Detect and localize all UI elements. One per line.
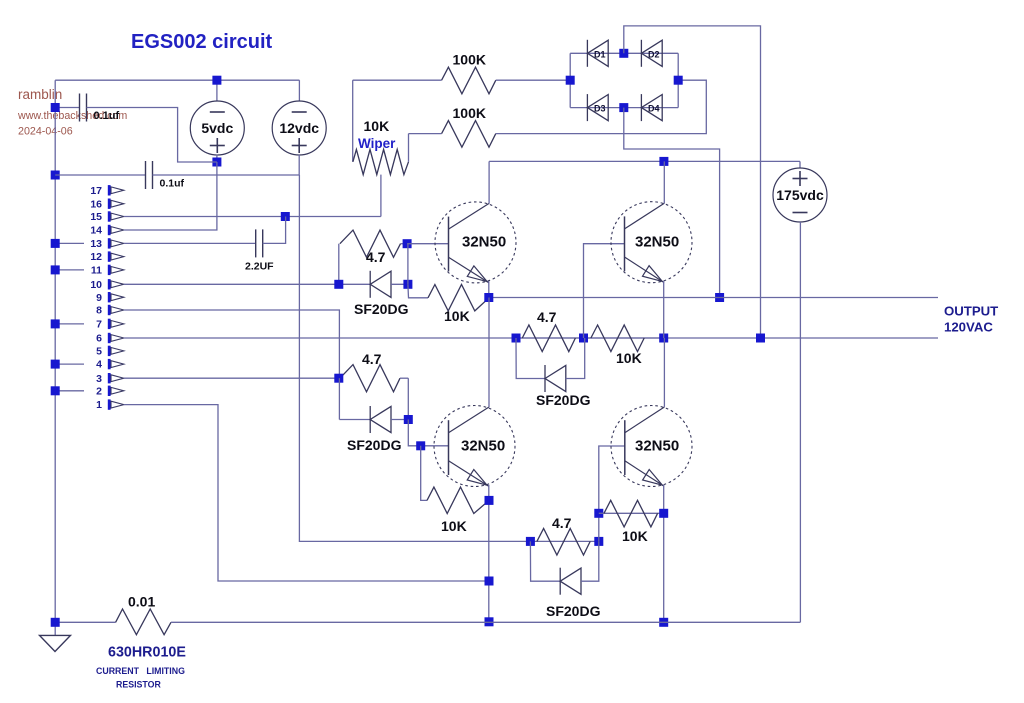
wire D8 right lead xyxy=(581,541,599,581)
svg-text:16: 16 xyxy=(90,198,102,210)
wire pin 13 to 2.2UF xyxy=(124,242,256,244)
svg-text:3: 3 xyxy=(96,373,102,385)
resistor R2 100K xyxy=(442,121,496,148)
pin 16 xyxy=(90,198,123,210)
wire C2 right lead xyxy=(153,174,300,176)
svg-text:13: 13 xyxy=(90,238,102,250)
diode D3 xyxy=(587,94,608,121)
pin 14 xyxy=(90,225,123,237)
wire Q4 base riser xyxy=(599,446,625,541)
svg-text:10K: 10K xyxy=(364,118,390,134)
wire 12vdc top lead xyxy=(298,80,300,101)
wire R6 leads xyxy=(584,337,664,339)
wire 175vdc bottom lead xyxy=(799,222,801,622)
wire output line 1 120VAC xyxy=(489,297,938,299)
node bridge tap on output line 2 xyxy=(756,334,765,343)
node ground stub pin 7 xyxy=(51,319,60,328)
node bridge bottom center xyxy=(619,103,628,112)
wire collector rail 175V xyxy=(489,160,800,162)
svg-text:100K: 100K xyxy=(453,52,486,68)
node R5 left xyxy=(512,334,521,343)
wire left ground rail xyxy=(54,80,56,635)
pin 4 xyxy=(96,359,124,371)
svg-text:630HR010E: 630HR010E xyxy=(108,645,186,661)
wire 5vdc bottom lead xyxy=(216,155,218,162)
wire bottom rail right to 175vdc xyxy=(171,621,800,623)
node ground stub pin 13 xyxy=(51,239,60,248)
node bridge right xyxy=(674,76,683,85)
diode D7 SF20DG xyxy=(370,406,391,433)
wire Q2 emitter drop xyxy=(663,281,665,338)
wire R7 to D7 drop xyxy=(407,378,409,419)
svg-text:10K: 10K xyxy=(444,308,470,324)
wire ground stub pin 13 xyxy=(55,242,84,244)
diode D6 SF20DG xyxy=(545,365,566,392)
svg-text:10: 10 xyxy=(90,279,102,291)
resistor R11 0.01 shunt xyxy=(116,609,171,635)
power source V3 175vdc xyxy=(773,168,827,222)
capacitor C3 2.2UF xyxy=(256,229,263,257)
wire R5 leads xyxy=(516,337,584,339)
svg-text:2024-04-06: 2024-04-06 xyxy=(18,126,73,138)
wire 175vdc top lead xyxy=(799,161,801,168)
node pin15/2.2UF junction xyxy=(281,212,290,221)
wire 12vdc bottom lead xyxy=(298,155,300,175)
transistor Q1 32N50 xyxy=(435,202,516,283)
svg-text:32N50: 32N50 xyxy=(461,438,505,455)
wire Q3 collector riser xyxy=(488,298,490,408)
ground symbol xyxy=(40,635,71,651)
wire R10 leads xyxy=(599,512,664,514)
svg-text:SF20DG: SF20DG xyxy=(546,603,601,619)
node R10 right / Q4 emitter xyxy=(659,509,668,518)
svg-text:5: 5 xyxy=(96,346,102,358)
svg-text:D1: D1 xyxy=(594,49,606,59)
resistor R9 4.7 xyxy=(537,528,590,555)
node R10 left junction xyxy=(594,509,603,518)
wire Q3 base lead xyxy=(408,420,448,446)
svg-text:120VAC: 120VAC xyxy=(944,320,993,335)
pin 1 xyxy=(96,399,124,411)
svg-text:5vdc: 5vdc xyxy=(201,120,233,136)
svg-text:32N50: 32N50 xyxy=(635,438,679,455)
resistor R3 4.7 xyxy=(340,230,401,257)
node ground rail junction xyxy=(51,618,60,627)
resistor R1 100K xyxy=(442,67,496,94)
svg-text:0.1uf: 0.1uf xyxy=(94,110,120,122)
node C2 rail junction xyxy=(51,171,60,180)
wire D5 to Q1 base riser xyxy=(407,244,409,285)
pin 9 xyxy=(96,292,124,304)
capacitor C1 0.1uf xyxy=(80,94,87,122)
potentiometer RV1 10K xyxy=(353,149,409,174)
wire R7 right lead xyxy=(400,377,408,379)
wire Q2 base riser xyxy=(584,244,625,338)
resistor R4 10K xyxy=(428,285,489,311)
wire ground stub pin 11 xyxy=(55,269,84,271)
wire ground stub pin 7 xyxy=(55,323,84,325)
wire R1 right lead xyxy=(496,79,570,81)
node C1 rail junction xyxy=(51,103,60,112)
capacitor C2 0.1uf xyxy=(146,161,153,189)
node collector rail junction Q2 xyxy=(659,157,668,166)
node gate net B left xyxy=(334,374,343,383)
svg-text:D3: D3 xyxy=(594,104,606,114)
wire D6 left lead xyxy=(516,338,545,379)
wire pot left leg xyxy=(352,80,354,162)
node bridge left xyxy=(566,76,575,85)
wire bridge bottom to output line 1 xyxy=(624,108,720,298)
svg-text:Wiper: Wiper xyxy=(358,136,396,151)
wire Q2 collector riser xyxy=(663,161,665,203)
wire D8 left lead xyxy=(530,541,560,581)
pin 12 xyxy=(90,251,123,263)
diode D5 SF20DG xyxy=(370,271,391,298)
wire C3 right lead xyxy=(263,217,286,244)
diode D1 xyxy=(587,40,608,67)
svg-text:6: 6 xyxy=(96,333,102,345)
svg-text:10K: 10K xyxy=(616,350,642,366)
transistor Q2 32N50 xyxy=(611,202,692,283)
wire ground stub pin 4 xyxy=(55,363,84,365)
svg-text:4.7: 4.7 xyxy=(552,515,572,531)
node ground stub pin 4 xyxy=(51,360,60,369)
wire Q1 base lead xyxy=(407,243,448,245)
wire R4 left lead xyxy=(408,284,428,298)
pin 3 xyxy=(96,373,124,385)
diode D2 xyxy=(641,40,662,67)
wire pin 6 / output line 2 xyxy=(124,337,938,339)
svg-text:10K: 10K xyxy=(441,518,467,534)
wire D7 right lead xyxy=(391,419,408,421)
svg-text:175vdc: 175vdc xyxy=(776,187,824,203)
wire pot right leg xyxy=(408,134,410,162)
node bridge tap on output line 1 xyxy=(715,293,724,302)
wire Q1 collector riser xyxy=(488,161,490,203)
wire R8 left lead xyxy=(421,446,427,501)
wire bridge top row xyxy=(570,52,678,54)
pin 7 xyxy=(96,319,124,331)
svg-text:8: 8 xyxy=(96,305,102,317)
svg-text:0.1uf: 0.1uf xyxy=(160,178,185,190)
wire C2 left lead xyxy=(55,174,145,176)
node 5vdc top junction xyxy=(212,76,221,85)
wire pot wiper tap xyxy=(380,175,382,217)
node gate net B right xyxy=(404,415,413,424)
node R8 right / Q3 emitter xyxy=(485,496,494,505)
svg-text:100K: 100K xyxy=(453,105,486,121)
node Q1 base xyxy=(403,239,412,248)
svg-text:2.2UF: 2.2UF xyxy=(245,261,274,273)
svg-text:EGS002 circuit: EGS002 circuit xyxy=(131,31,273,53)
pin 6 xyxy=(96,333,124,345)
diode D4 xyxy=(641,94,662,121)
pin 13 xyxy=(90,238,123,250)
svg-text:12: 12 xyxy=(90,251,102,263)
pin 2 xyxy=(96,385,124,397)
wire pin 15 to wiper xyxy=(124,216,381,218)
svg-text:SF20DG: SF20DG xyxy=(347,437,402,453)
svg-text:12vdc: 12vdc xyxy=(279,120,319,136)
wire D5 left lead xyxy=(339,283,370,285)
wire pin 14 to 5vdc minus xyxy=(124,162,217,230)
pin 11 xyxy=(91,265,124,277)
resistor R8 10K xyxy=(427,487,489,513)
svg-text:4: 4 xyxy=(96,359,102,371)
node gate net A left xyxy=(334,280,343,289)
node R5/R6 junction xyxy=(579,334,588,343)
node Q3 base junction xyxy=(416,441,425,450)
svg-text:SF20DG: SF20DG xyxy=(536,392,591,408)
svg-text:11: 11 xyxy=(91,265,102,277)
wire Q1 emitter drop xyxy=(488,281,490,297)
node pin1 junction on emitter drop xyxy=(485,577,494,586)
svg-text:D2: D2 xyxy=(648,49,660,59)
wire pin 1 to emitter rail xyxy=(124,405,489,581)
power source V2 12vdc xyxy=(272,101,326,155)
svg-text:2: 2 xyxy=(96,385,102,397)
svg-text:D4: D4 xyxy=(648,104,660,114)
wire R1 left lead xyxy=(353,79,442,81)
wire bridge left side xyxy=(569,53,571,107)
svg-text:14: 14 xyxy=(90,225,102,237)
node Q4 emitter on bottom rail xyxy=(659,618,668,627)
diode D8 SF20DG xyxy=(560,568,581,595)
node 5vdc bottom junction xyxy=(212,158,221,167)
wire pin 10 to gate net A xyxy=(124,283,339,285)
wire D6 right lead xyxy=(566,338,585,379)
wire 5vdc top lead xyxy=(216,80,218,101)
transistor Q4 32N50 xyxy=(611,406,692,487)
wire top +V rail xyxy=(55,79,299,81)
pin 10 xyxy=(90,279,123,291)
svg-text:15: 15 xyxy=(90,211,102,223)
wire bridge bottom row xyxy=(570,107,678,109)
wire C1 left lead xyxy=(55,107,79,109)
node ground stub pin 11 xyxy=(51,265,60,274)
wire pin 3 to gate net B xyxy=(124,377,339,379)
wire Q4 collector riser xyxy=(663,338,665,407)
svg-text:4.7: 4.7 xyxy=(537,309,557,325)
wire R2 left lead xyxy=(409,133,442,135)
resistor R10 10K xyxy=(604,500,658,527)
wire gate net B riser xyxy=(338,378,340,419)
svg-text:0.01: 0.01 xyxy=(128,594,155,610)
resistor R6 10K xyxy=(591,325,644,352)
wire bridge right side xyxy=(677,53,679,107)
wire D5 right lead xyxy=(391,283,408,285)
svg-text:10K: 10K xyxy=(622,528,648,544)
svg-text:32N50: 32N50 xyxy=(462,233,506,250)
node R9 left xyxy=(526,537,535,546)
svg-text:1: 1 xyxy=(96,399,102,411)
svg-text:7: 7 xyxy=(96,319,102,331)
wire Q3 emitter drop xyxy=(488,485,490,622)
pin 17 xyxy=(90,185,123,197)
node Q1 emitter on output line 1 xyxy=(484,293,493,302)
pin 5 xyxy=(96,346,124,358)
wire R2 right lead to bridge xyxy=(496,80,707,133)
svg-text:32N50: 32N50 xyxy=(635,233,679,250)
node ground stub pin 2 xyxy=(51,386,60,395)
wire ground stub pin 2 xyxy=(55,390,84,392)
svg-text:17: 17 xyxy=(90,185,102,197)
node bridge top center xyxy=(619,49,628,58)
pin 15 xyxy=(90,211,123,223)
wire D7 left lead xyxy=(339,419,370,421)
power source V1 5vdc xyxy=(190,101,244,155)
svg-text:CURRENT LIMITING: CURRENT LIMITING xyxy=(96,666,185,676)
svg-text:4.7: 4.7 xyxy=(362,351,382,367)
node R9 right xyxy=(594,537,603,546)
wire bottom rail left xyxy=(55,621,115,623)
node Q3 emitter on bottom rail xyxy=(485,617,494,626)
wire pin 8 to gate net B xyxy=(124,310,340,378)
wire R3 right lead xyxy=(401,243,408,245)
wire C1 right lead to 5vdc minus xyxy=(87,108,217,163)
node gate net A right xyxy=(403,280,412,289)
wire R9 leads xyxy=(530,540,598,542)
wire 12vdc minus drop to Q4 net xyxy=(299,175,530,541)
wire gate net A riser xyxy=(338,244,340,285)
svg-text:RESISTOR: RESISTOR xyxy=(116,680,161,690)
transistor Q3 32N50 xyxy=(434,406,515,487)
node Q2 emitter on output line 2 xyxy=(659,334,668,343)
svg-text:4.7: 4.7 xyxy=(366,249,386,265)
svg-text:9: 9 xyxy=(96,292,102,304)
wire bridge top to output line 2 xyxy=(624,26,761,338)
svg-text:OUTPUT: OUTPUT xyxy=(944,304,998,319)
resistor R7 4.7 xyxy=(340,365,400,392)
svg-text:SF20DG: SF20DG xyxy=(354,301,409,317)
pin 8 xyxy=(96,305,124,317)
resistor R5 4.7 xyxy=(522,325,575,352)
wire Q4 emitter drop xyxy=(663,485,665,622)
